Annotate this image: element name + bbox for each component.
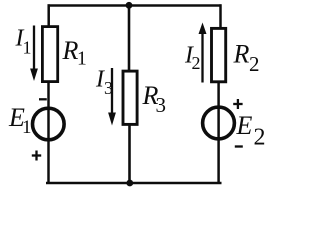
node top junction bbox=[126, 2, 133, 9]
svg-text:2: 2 bbox=[192, 53, 201, 73]
wire top bbox=[48, 4, 222, 6]
wire bottom bbox=[46, 182, 222, 185]
minus sign E1 bbox=[39, 98, 47, 100]
svg-text:3: 3 bbox=[156, 93, 167, 117]
wire right branch upper bbox=[219, 4, 222, 29]
svg-text:3: 3 bbox=[104, 78, 113, 98]
source E1 bbox=[8, 103, 64, 140]
svg-text:1: 1 bbox=[23, 38, 32, 58]
wire middle branch upper bbox=[128, 6, 131, 72]
resistor R1 bbox=[42, 27, 86, 82]
source E2 bbox=[203, 107, 266, 150]
wire left branch upper bbox=[47, 4, 50, 26]
svg-text:1: 1 bbox=[77, 49, 87, 70]
svg-text:2: 2 bbox=[254, 125, 266, 151]
resistor R2 bbox=[212, 28, 260, 81]
node bottom junction bbox=[126, 180, 133, 187]
resistor R3 bbox=[123, 71, 166, 124]
svg-text:1: 1 bbox=[22, 117, 32, 138]
current arrow I3 bbox=[95, 67, 116, 126]
plus sign E2 bbox=[233, 99, 242, 109]
wire middle branch lower bbox=[128, 124, 131, 184]
svg-text:E: E bbox=[236, 111, 253, 140]
minus sign E2 bbox=[235, 145, 243, 147]
wire left branch lower bbox=[47, 82, 50, 184]
plus sign E1 bbox=[32, 151, 41, 161]
current arrow I1 bbox=[15, 26, 38, 82]
svg-text:R: R bbox=[233, 40, 250, 69]
wire right branch lower bbox=[217, 81, 220, 184]
svg-text:2: 2 bbox=[249, 52, 260, 76]
svg-text:R: R bbox=[62, 36, 79, 65]
current arrow I2 bbox=[184, 23, 207, 83]
